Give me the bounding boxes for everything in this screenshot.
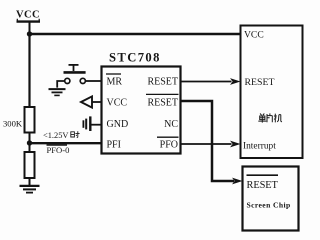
svg-text:RESET: RESET (247, 180, 279, 191)
svg-text:VCC: VCC (107, 98, 128, 109)
node B junction dot (27, 140, 32, 145)
svg-text:<1.25V: <1.25V (43, 131, 68, 140)
单 (258, 114, 266, 123)
wire SW1 to ground GND2 (57, 81, 64, 88)
input marker triangle at VCC pin (81, 96, 92, 107)
wire PFO to MCU Interrupt (181, 143, 232, 145)
svg-text:300K: 300K (3, 119, 23, 129)
wire triangle to VCC pin (92, 101, 101, 103)
svg-text:VCC: VCC (16, 10, 40, 21)
MCU label 单片机 (drawn hanzi) (258, 113, 282, 122)
node A junction dot (27, 31, 32, 36)
svg-text:PFI: PFI (107, 140, 121, 151)
wire C1 to GND pin (91, 124, 101, 126)
arrowhead into MCU RESET (230, 78, 241, 85)
svg-text:RESET: RESET (147, 98, 178, 109)
svg-text:VCC: VCC (244, 30, 264, 41)
VCC rail symbol (17, 20, 41, 22)
svg-text:Screen Chip: Screen Chip (247, 201, 291, 210)
机 (274, 114, 282, 123)
svg-text:STC708: STC708 (109, 51, 161, 65)
svg-text:PFO-0: PFO-0 (47, 145, 70, 155)
片 (267, 113, 272, 122)
capacitor C1 at GND pin (83, 116, 90, 131)
svg-text:NC: NC (164, 119, 178, 130)
screen chip box (243, 167, 299, 231)
wire node A down to R1 (28, 34, 30, 107)
wire top rail node A to MCU VCC (30, 33, 241, 35)
wire /RESET to screen chip (181, 101, 235, 181)
MCU box (241, 26, 303, 159)
arrowhead into screen chip RESET (232, 178, 243, 185)
resistor R1 (25, 107, 35, 133)
svg-text:GND: GND (107, 119, 129, 130)
resistor R2 (25, 152, 35, 178)
ground GND1 (20, 185, 40, 187)
ground GND2 (49, 88, 66, 90)
svg-text:RESET: RESET (245, 77, 275, 88)
wire R2 to ground (29, 178, 31, 186)
wire SW1 to MR pin (86, 80, 102, 82)
svg-text:RESET: RESET (147, 77, 178, 88)
IC U1 STC708 box (102, 67, 181, 154)
wire R1 to node B (29, 133, 31, 153)
pushbutton SW1 (64, 65, 86, 84)
wire VCC stem to node A (29, 22, 31, 34)
wire RESET to MCU RESET (181, 81, 232, 83)
wire node B to PFI pin (30, 142, 102, 144)
svg-text:PFO: PFO (160, 140, 178, 151)
arrowhead into MCU Interrupt (230, 141, 241, 148)
svg-text:MR: MR (107, 77, 123, 88)
svg-text:Interrupt: Interrupt (243, 141, 276, 151)
hanzi 时 (drawn) (71, 131, 80, 138)
